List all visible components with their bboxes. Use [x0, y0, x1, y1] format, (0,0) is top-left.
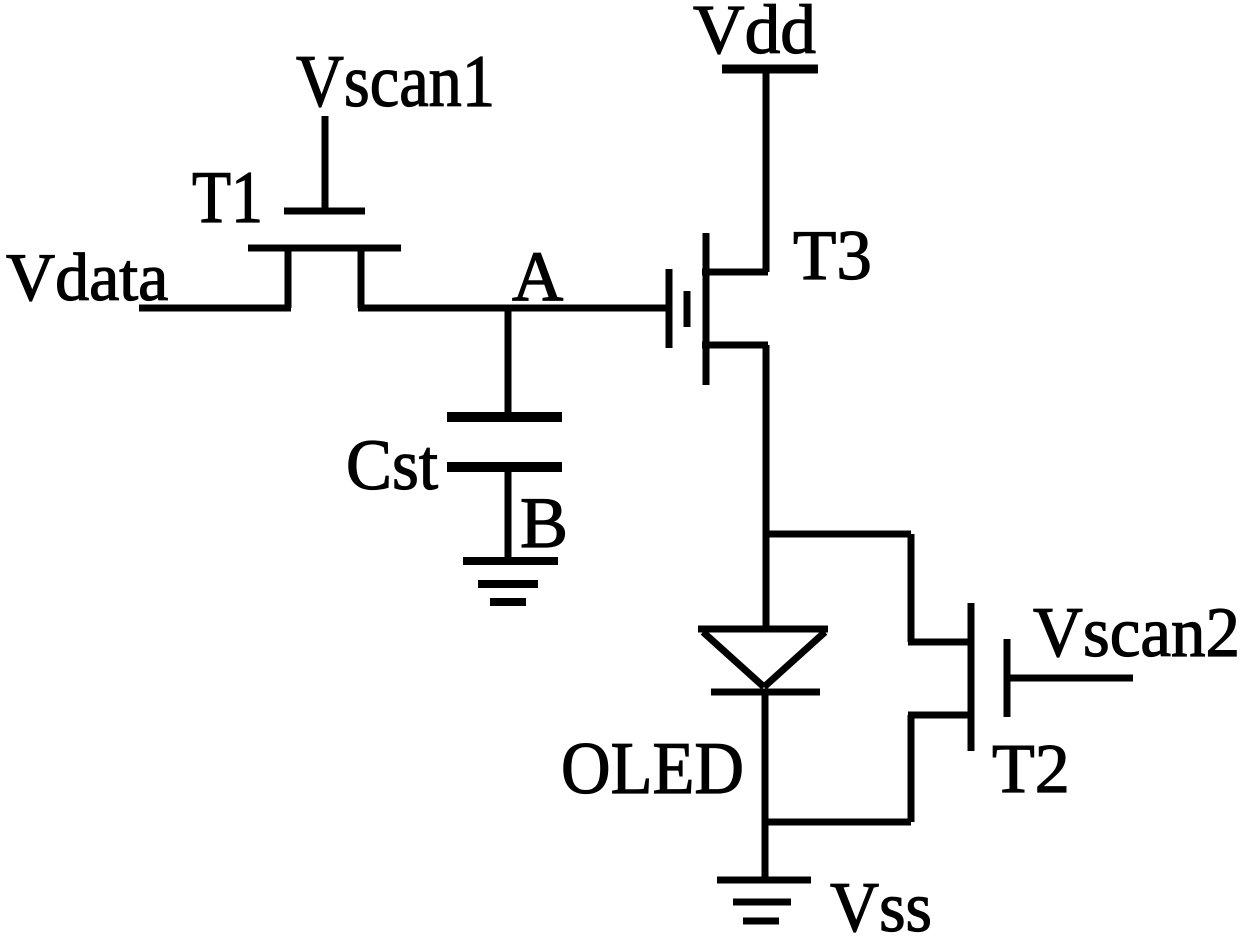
svg-text:Vscan1: Vscan1: [296, 41, 495, 123]
capacitor Cst: [447, 417, 562, 467]
svg-text:Vss: Vss: [830, 869, 932, 937]
transistor T3: [669, 233, 768, 385]
svg-text:Cst: Cst: [346, 425, 438, 505]
wire Vscan1 to T1 gate: [322, 116, 329, 211]
svg-text:OLED: OLED: [561, 728, 744, 810]
svg-text:Vdata: Vdata: [6, 239, 168, 315]
wire Cst bottom plate to ground: [505, 467, 512, 561]
svg-text:Vscan2: Vscan2: [1033, 594, 1240, 672]
wire T2 gate to Vscan2: [1007, 675, 1133, 682]
transistor T2: [908, 603, 1007, 751]
power Vdd terminal bar: [722, 65, 818, 74]
ground Vss: [717, 880, 811, 921]
wire Vdata to T1 source: [139, 305, 291, 312]
transistor T1: [248, 211, 401, 308]
wire node A to Cst top plate: [505, 305, 512, 417]
diode OLED: [698, 629, 828, 692]
wire node A : T1 drain to T3 gate: [358, 305, 669, 312]
wire T3 source down to OLED anode: [763, 345, 770, 630]
wire junction to T2 drain branch: [765, 531, 911, 538]
wire Vdd to T3 drain: [763, 69, 770, 272]
wire bottom junction to T2 source: [765, 819, 911, 826]
svg-text:A: A: [512, 238, 563, 316]
svg-text:T3: T3: [793, 217, 872, 295]
svg-text:Vdd: Vdd: [693, 0, 816, 69]
wire down to T2 drain lead: [908, 534, 915, 642]
svg-text:T2: T2: [992, 731, 1070, 808]
svg-text:B: B: [520, 483, 568, 563]
svg-text:T1: T1: [192, 157, 263, 239]
wire OLED cathode to Vss ground: [762, 692, 769, 879]
wire T2 source down: [908, 715, 915, 822]
ground at node B: [463, 561, 558, 602]
